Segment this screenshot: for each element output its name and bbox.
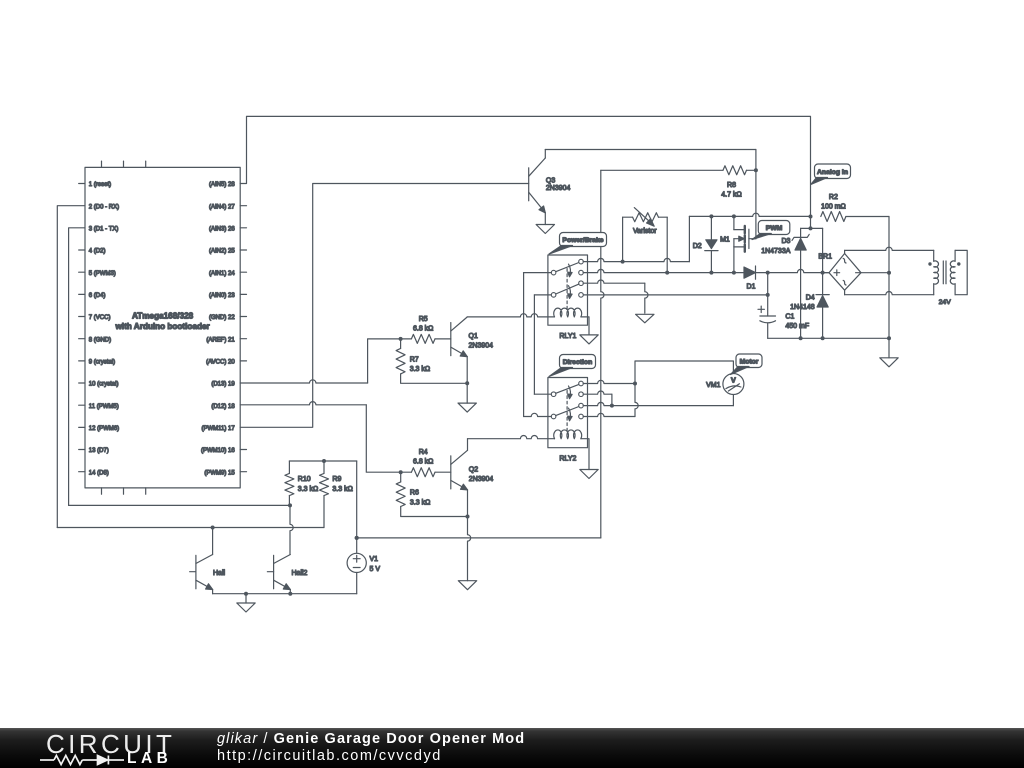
svg-text:R5: R5 (419, 316, 428, 323)
svg-text:(AIN3) 26: (AIN3) 26 (209, 226, 235, 232)
svg-text:13 (D7): 13 (D7) (89, 448, 109, 454)
svg-text:R7: R7 (410, 356, 419, 363)
svg-text:R10: R10 (298, 476, 311, 483)
svg-text:3.3 kΩ: 3.3 kΩ (410, 366, 430, 373)
svg-text:Direction: Direction (563, 359, 592, 366)
svg-text:(D12) 18: (D12) 18 (211, 404, 235, 410)
svg-text:ATmega168/328: ATmega168/328 (132, 312, 194, 321)
svg-text:(D13) 19: (D13) 19 (211, 382, 235, 388)
svg-text:(PWM9) 15: (PWM9) 15 (204, 470, 235, 476)
svg-text:5 V: 5 V (370, 566, 381, 573)
svg-text:(PWM11) 17: (PWM11) 17 (201, 426, 235, 432)
svg-text:6.8 kΩ: 6.8 kΩ (413, 325, 433, 332)
svg-text:3.3 kΩ: 3.3 kΩ (410, 499, 430, 506)
svg-text:Motor: Motor (740, 358, 759, 365)
svg-text:3.3 kΩ: 3.3 kΩ (332, 486, 352, 493)
svg-text:4 (D2): 4 (D2) (89, 249, 106, 255)
svg-text:(AREF) 21: (AREF) 21 (206, 337, 235, 343)
svg-text:6.8 kΩ: 6.8 kΩ (413, 459, 433, 466)
svg-text:3 (D1 - TX): 3 (D1 - TX) (89, 226, 119, 232)
svg-text:Q1: Q1 (469, 333, 478, 340)
svg-text:C1: C1 (785, 313, 794, 320)
svg-text:14 (D8): 14 (D8) (89, 470, 109, 476)
svg-text:D2: D2 (693, 243, 702, 250)
svg-text:100 mΩ: 100 mΩ (821, 203, 846, 210)
svg-text:Q3: Q3 (546, 178, 555, 185)
svg-text:R4: R4 (419, 449, 428, 456)
svg-text:2N3904: 2N3904 (469, 343, 494, 350)
svg-text:D4: D4 (806, 295, 815, 302)
svg-text:450 mF: 450 mF (785, 323, 809, 330)
svg-text:(PWM10) 16: (PWM10) 16 (201, 448, 235, 454)
svg-text:(GND) 22: (GND) 22 (209, 315, 235, 321)
svg-text:1N4148: 1N4148 (790, 304, 815, 311)
svg-text:1N4733A: 1N4733A (761, 248, 791, 255)
svg-text:with Arduino bootloader: with Arduino bootloader (114, 322, 210, 331)
svg-text:RLY1: RLY1 (559, 333, 576, 340)
svg-text:Q2: Q2 (469, 466, 478, 473)
svg-text:6 (D4): 6 (D4) (89, 293, 106, 299)
svg-text:VM1: VM1 (706, 382, 721, 389)
svg-text:10 (crystal): 10 (crystal) (89, 382, 119, 388)
svg-text:(AIN1) 24: (AIN1) 24 (209, 271, 235, 277)
svg-text:RLY2: RLY2 (559, 456, 576, 463)
svg-text:R8: R8 (727, 182, 736, 189)
svg-text:(AIN5) 28: (AIN5) 28 (209, 182, 235, 188)
svg-text:Hall: Hall (213, 570, 226, 577)
svg-text:R6: R6 (410, 490, 419, 497)
svg-text:12 (PWM6): 12 (PWM6) (89, 426, 119, 432)
svg-text:2N3904: 2N3904 (546, 185, 571, 192)
svg-text:(AIN2) 25: (AIN2) 25 (209, 249, 235, 255)
svg-text:Analog In: Analog In (817, 169, 848, 176)
svg-text:3.3 kΩ: 3.3 kΩ (298, 486, 318, 493)
svg-text:5 (PWM3): 5 (PWM3) (89, 271, 116, 277)
svg-text:(AIN0) 23: (AIN0) 23 (209, 293, 235, 299)
svg-text:PWM: PWM (766, 225, 783, 232)
svg-text:R9: R9 (332, 476, 341, 483)
svg-text:D3: D3 (781, 238, 790, 245)
svg-text:(AVCC) 20: (AVCC) 20 (206, 360, 235, 366)
svg-text:Power/Brake: Power/Brake (562, 237, 603, 244)
svg-text:24V: 24V (939, 299, 952, 306)
svg-text:D1: D1 (747, 284, 756, 291)
svg-text:R2: R2 (829, 194, 838, 201)
svg-text:M1: M1 (720, 236, 730, 243)
svg-text:1 (reset): 1 (reset) (89, 182, 111, 188)
svg-text:Hall2: Hall2 (292, 570, 308, 577)
svg-text:V: V (731, 375, 736, 384)
svg-text:11 (PWM5): 11 (PWM5) (89, 404, 119, 410)
svg-text:9 (crystal): 9 (crystal) (89, 360, 115, 366)
svg-text:Varistor: Varistor (633, 228, 657, 235)
svg-text:(AIN4) 27: (AIN4) 27 (209, 204, 235, 210)
svg-text:7 (VCC): 7 (VCC) (89, 315, 111, 321)
svg-text:4.7 kΩ: 4.7 kΩ (721, 192, 741, 199)
svg-text:BR1: BR1 (818, 254, 832, 261)
svg-text:2 (D0 - RX): 2 (D0 - RX) (89, 204, 119, 210)
svg-text:2N3904: 2N3904 (469, 476, 494, 483)
svg-text:8 (GND): 8 (GND) (89, 337, 111, 343)
svg-text:V1: V1 (370, 556, 379, 563)
